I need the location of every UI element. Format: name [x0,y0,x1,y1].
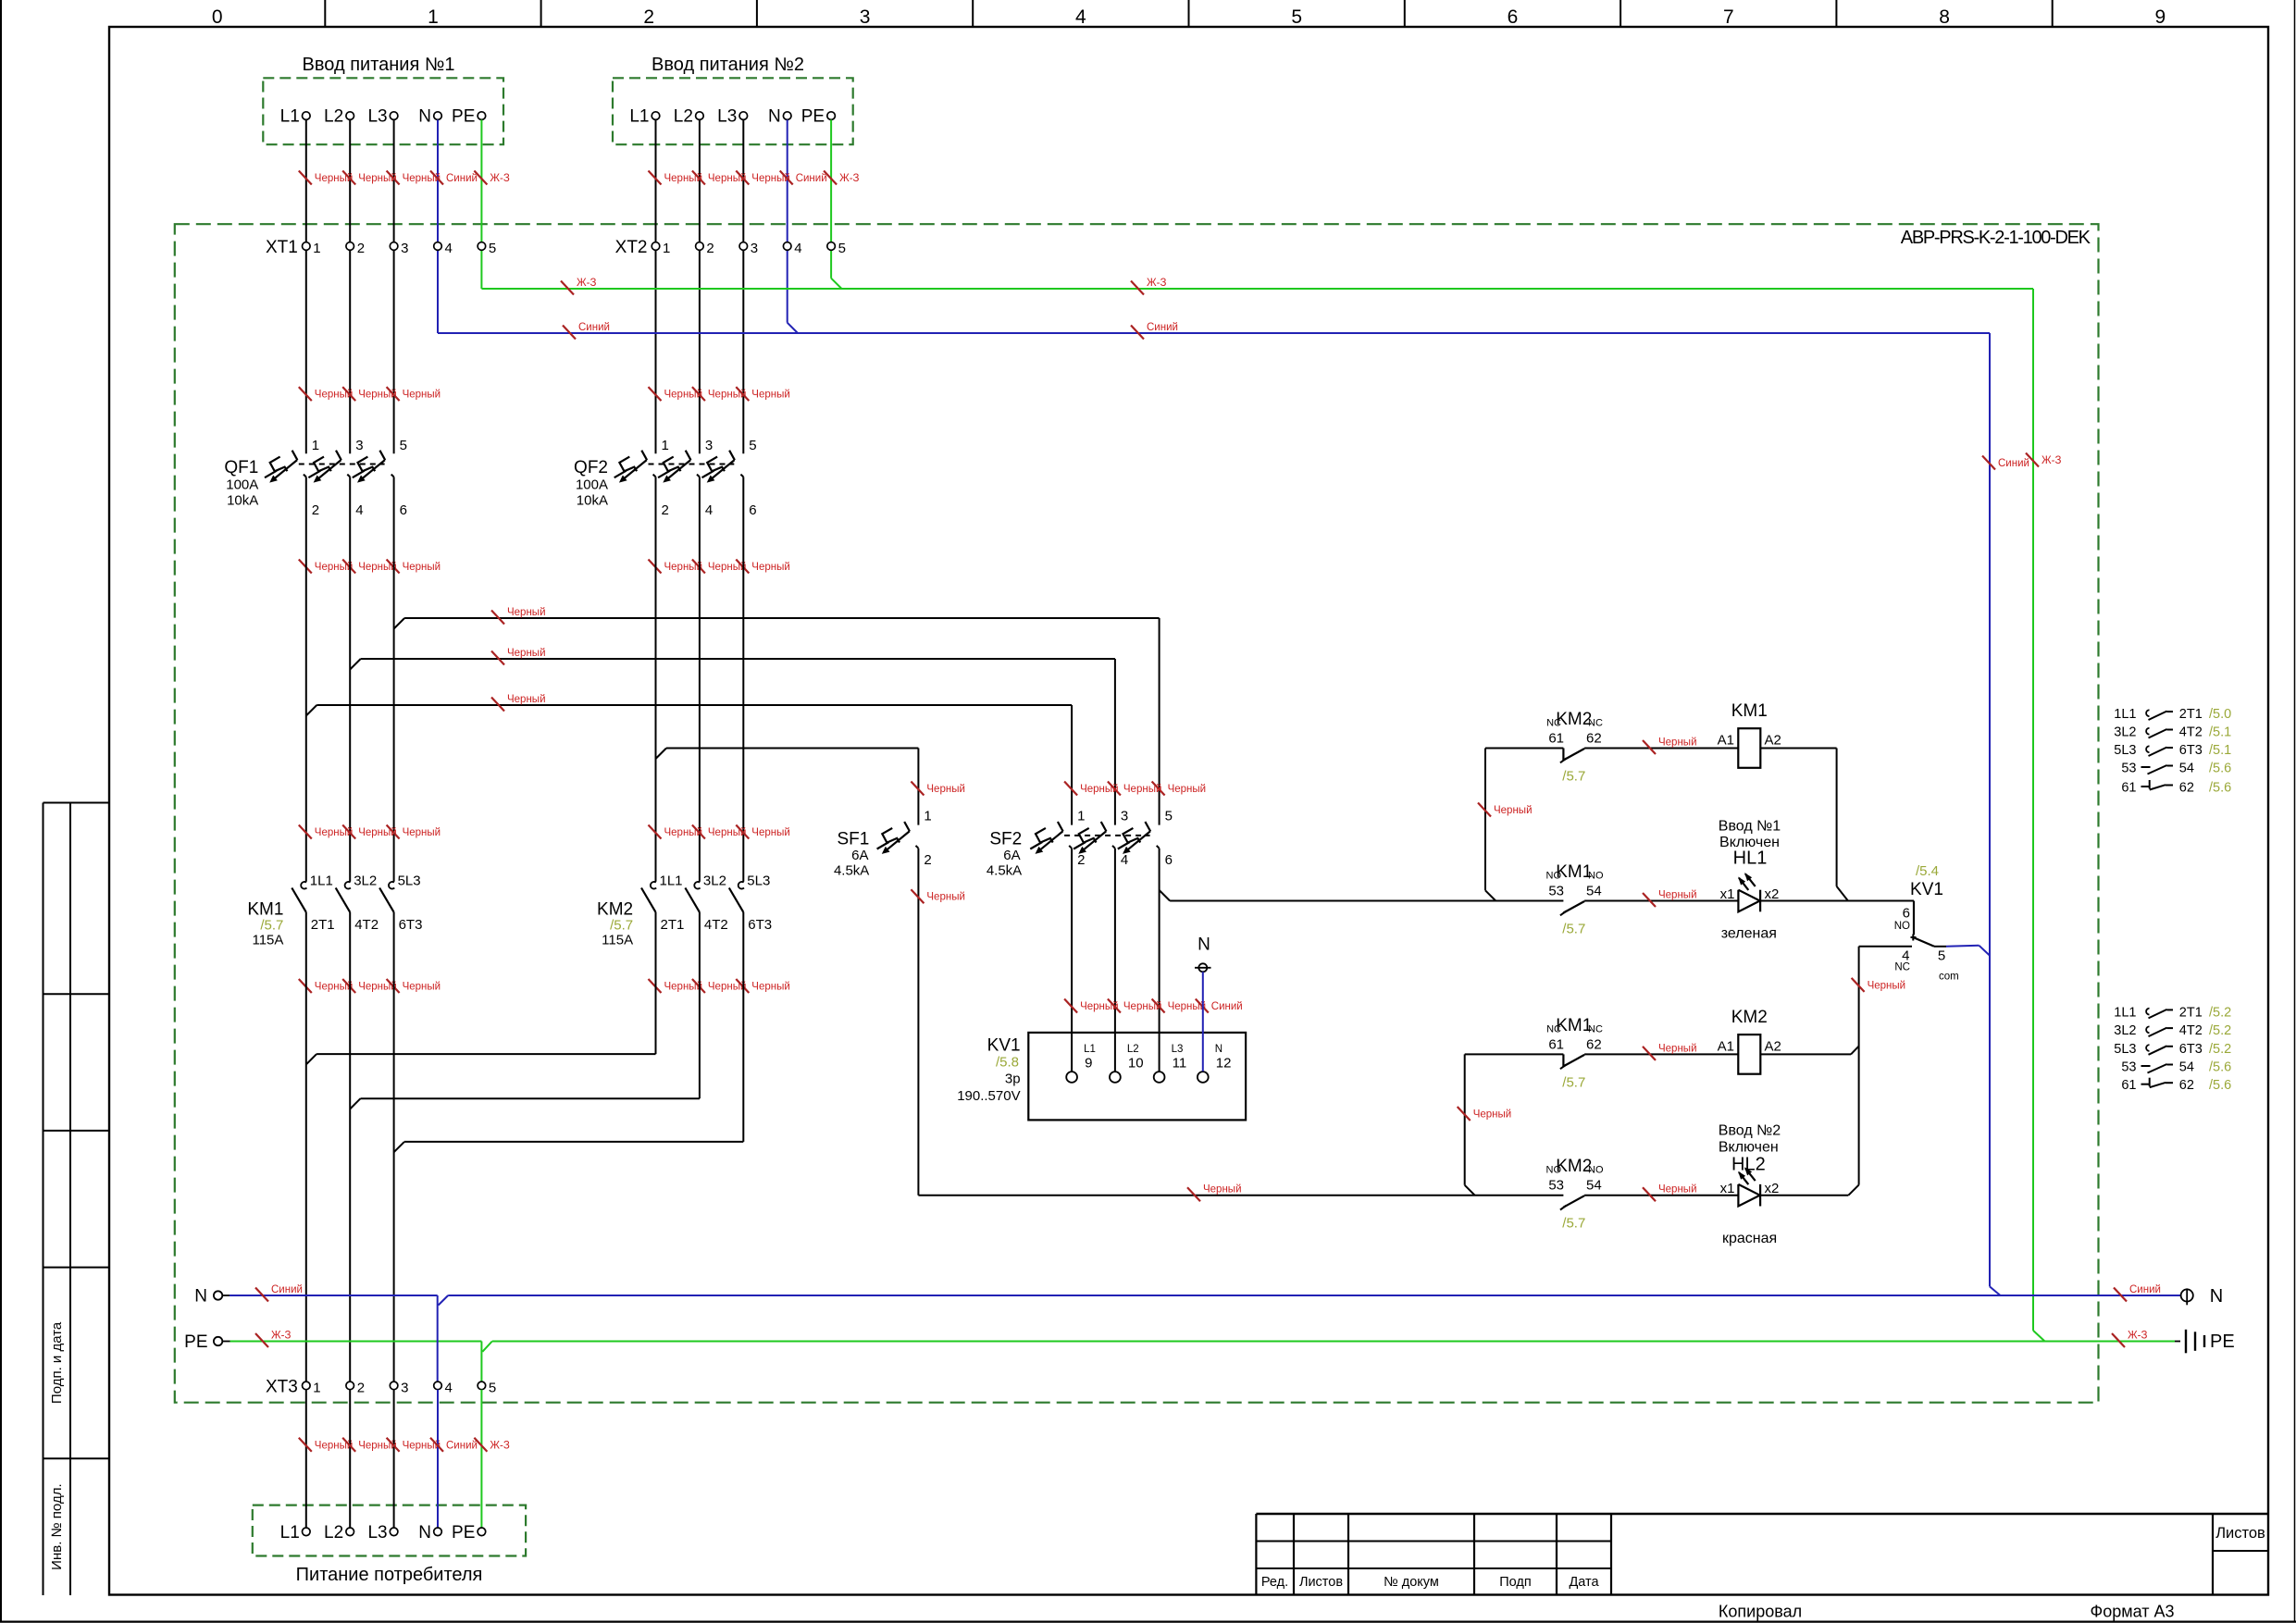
contact KM1 NO 53-54 (rung2) [1546,862,1604,937]
svg-text:KM1: KM1 [1556,1016,1592,1035]
SF2 label [987,830,1022,879]
SF1 label [834,830,869,879]
svg-text:Черный: Черный [1658,737,1697,749]
wire colour labels below KM2 [649,979,790,993]
svg-text:KM1: KM1 [1731,701,1768,721]
left label Инв. № подл. [49,1483,65,1569]
wire rung1 right riser [1837,749,1848,901]
svg-text:/5.2: /5.2 [2209,1005,2231,1020]
svg-text:N: N [768,107,781,127]
svg-text:6: 6 [1903,906,1910,922]
branch chamfer SF2:6 to control rung [1160,890,1171,901]
svg-text:8: 8 [1939,6,1950,28]
svg-text:Черный: Черный [1123,784,1162,795]
wire colour label on bus y=668 [491,607,546,625]
terminal XT3:5 [478,1380,496,1395]
svg-text:11: 11 [1173,1056,1187,1072]
svg-text:1L1: 1L1 [310,873,333,889]
contactor KM1 main contact 5L3-6T3 [379,873,422,934]
svg-text:3L2: 3L2 [2114,1023,2136,1038]
svg-text:XT2: XT2 [615,238,648,257]
wire rung3 left segment [1465,1053,1564,1055]
wire colour labels above KM1 [299,825,441,839]
ruler column ticks [325,0,2052,27]
svg-text:NC: NC [1894,962,1910,973]
contact KM2 NO 53-54 (rung4) [1546,1157,1604,1232]
title block label № докум [1384,1575,1439,1590]
input box Ввод питания №2 [613,78,853,144]
KM1 label [247,900,283,948]
svg-text:5L3: 5L3 [398,873,421,889]
svg-text:NO: NO [1894,921,1910,932]
svg-text:3: 3 [1121,809,1128,824]
svg-text:Черный: Черный [403,390,441,401]
svg-text:Ред.: Ред. [1261,1575,1288,1590]
svg-text:5L3: 5L3 [747,873,770,889]
svg-text:6A: 6A [1003,848,1020,863]
svg-text:1L1: 1L1 [2114,1005,2136,1020]
svg-text:Ввод питания №2: Ввод питания №2 [652,55,804,75]
wire KM1 output column 6T3 down to XT3 [393,912,395,1381]
svg-text:NO: NO [1546,871,1562,882]
svg-text:1: 1 [1077,809,1085,824]
merge wire KM2 2T1 to KM1 column [316,912,655,1054]
voltage relay KV1 box [1028,1033,1246,1121]
terminal strip XT1 label [266,238,298,257]
svg-text:/5.7: /5.7 [1562,1074,1585,1090]
contactor KM2 main contact 3L2-4T2 [685,873,727,934]
title block label Листов (right) [2215,1525,2265,1542]
svg-text:62: 62 [1586,1036,1602,1052]
svg-text:ABP-PRS-K-2-1-100-DEK: ABP-PRS-K-2-1-100-DEK [1901,228,2091,248]
svg-text:Формат А3: Формат А3 [2091,1603,2175,1621]
svg-text:61: 61 [2121,1078,2136,1093]
svg-text:Питание потребителя: Питание потребителя [296,1565,483,1585]
terminal XT2:2 [696,241,714,256]
svg-text:Подп: Подп [1499,1575,1531,1590]
KM2 label [597,900,633,948]
KV1 terminal 12 (N) [1198,1044,1232,1083]
wire colour label rung4 right [1643,1184,1697,1202]
svg-text:Ж-З: Ж-З [271,1331,291,1342]
footer label Формат А3 [2091,1603,2175,1621]
svg-text:2: 2 [706,241,714,256]
svg-text:L1: L1 [1084,1044,1096,1055]
N rail label Синий left [255,1284,303,1302]
svg-text:0: 0 [212,6,223,28]
title block label Подп [1499,1575,1531,1590]
cross-ref KM2 contact 61-62 [2121,1078,2231,1094]
svg-text:/5.4: /5.4 [1916,863,1939,879]
terminal XT1:5 [478,241,496,256]
N rail left segment [230,1295,438,1296]
input 2 terminal L1 [629,107,659,127]
svg-text:62: 62 [1586,731,1602,747]
input 1 terminal PE [452,107,486,127]
svg-text:4: 4 [1075,6,1086,28]
svg-text:54: 54 [2179,1060,2194,1075]
svg-text:1: 1 [428,6,439,28]
svg-text:10: 10 [1128,1056,1144,1072]
svg-text:2T1: 2T1 [311,917,335,933]
wire colour label consumer N [430,1438,478,1452]
contactor coil KM2 [1718,1008,1781,1074]
PE rail label Ж-З left [255,1331,291,1348]
svg-text:Черный: Черный [1658,890,1697,901]
wire colour labels above QF2 [649,387,790,401]
wire colour label input2 L2 [692,171,747,185]
svg-text:/5.6: /5.6 [2209,1060,2231,1075]
KV1 terminal 11 (L3) [1154,1044,1186,1083]
svg-text:/5.2: /5.2 [2209,1023,2231,1038]
svg-text:Синий: Синий [1147,322,1178,333]
svg-text:L3: L3 [717,107,737,127]
wire input1 L3 to QF1 [393,119,395,453]
svg-text:Синий: Синий [446,173,478,184]
svg-text:/5.6: /5.6 [2209,781,2231,796]
terminal N (left) [194,1287,230,1307]
wire bus to SF1 [666,749,918,825]
svg-text:62: 62 [2179,781,2194,796]
merge wire KM2 4T2 to KM1 column [361,912,700,1098]
svg-text:x2: x2 [1765,1181,1780,1196]
svg-text:10kA: 10kA [577,493,608,509]
wire colour label on riser [1478,803,1533,817]
wire QF1 column x=331 down to KM1 [305,477,307,881]
wire input2 PE down to PE bus [831,119,841,289]
svg-text:№ докум: № докум [1384,1575,1439,1590]
wire colour label rung3 [1643,1043,1697,1060]
svg-text:53: 53 [1548,884,1564,899]
consumer terminal PE [452,1523,486,1542]
wire N tap to KV1:12 [1202,972,1204,1072]
terminal N (right) [2181,1286,2224,1307]
svg-text:5L3: 5L3 [2114,743,2136,758]
svg-text:A1: A1 [1718,733,1734,749]
svg-text:6T3: 6T3 [399,917,423,933]
svg-text:5: 5 [1938,948,1945,964]
consumer terminal L3 [367,1523,397,1542]
terminal XT3:4 [434,1380,453,1395]
svg-text:/5.7: /5.7 [610,918,633,934]
wire SF2:2 down to KV1:9 [1071,849,1073,1072]
svg-text:/5.7: /5.7 [260,918,283,934]
wire QF1 column x=378 down to KM1 [349,477,351,881]
svg-text:L3: L3 [1172,1044,1184,1055]
svg-text:Черный: Черный [1868,980,1906,991]
svg-text:5: 5 [1165,809,1173,824]
wire colour label input2 L3 [736,171,790,185]
svg-text:2: 2 [924,852,931,868]
svg-text:L2: L2 [1127,1044,1139,1055]
svg-text:NC: NC [1546,718,1561,729]
svg-text:PE: PE [184,1332,207,1352]
wire colour label rung1 [1643,737,1697,755]
wire colour label consumer L3 [387,1438,441,1452]
svg-text:Синий: Синий [1998,458,2029,469]
wire colour label input1 N [430,171,478,185]
svg-text:NO: NO [1588,1165,1604,1176]
svg-text:L2: L2 [324,107,343,127]
svg-text:1L1: 1L1 [660,873,683,889]
wire KM1 output column 2T1 down to XT3 [305,912,307,1381]
wire colour labels above QF1 [299,387,441,401]
wire bus y=668 to SF2 [404,618,1160,825]
svg-text:Листов: Листов [1299,1575,1343,1590]
merge chamfer at (378,1187) [350,1098,360,1109]
title block label Ред. [1261,1575,1288,1590]
svg-text:12: 12 [1216,1056,1232,1072]
wire colour label consumer L1 [299,1438,354,1452]
relay contact KV1 6-4-5 [1894,863,1959,983]
svg-text:Черный: Черный [1658,1043,1697,1054]
svg-text:N: N [418,107,431,127]
PE rail right segment [482,1342,2175,1352]
svg-text:/5.1: /5.1 [2209,725,2231,740]
svg-text:Черный: Черный [751,562,790,573]
svg-text:Черный: Черный [926,892,965,903]
branch chamfer at (426,668) [394,618,405,629]
terminal XT3:2 [346,1380,365,1395]
svg-text:6T3: 6T3 [748,917,772,933]
svg-text:L2: L2 [674,107,693,127]
cross-ref KM2 contact 5L3-6T3 [2114,1042,2231,1057]
wire KM1 output column 4T2 down to XT3 [349,912,351,1381]
input 1 terminal N [418,107,441,127]
svg-text:Черный: Черный [1494,805,1533,816]
enclosure name label [1901,228,2091,248]
wire rung2 (supply from SF2) [1170,900,1914,902]
wire XT3:5 to consumer PE [480,1390,482,1528]
branch chamfer at (331,762) [306,705,317,716]
cross-ref KM1 contact 1L1-2T1 [2114,707,2231,722]
KV1 label [957,1036,1020,1105]
svg-text:6A: 6A [851,848,868,863]
output box Питание потребителя [253,1505,526,1556]
svg-text:/5.2: /5.2 [2209,1042,2231,1057]
terminal XT1:4 [434,241,453,256]
svg-text:PE: PE [2210,1332,2235,1352]
breaker SF1 pole [877,822,919,854]
svg-text:/5.8: /5.8 [996,1055,1019,1071]
svg-text:3: 3 [751,241,758,256]
svg-text:190..570V: 190..570V [957,1088,1020,1104]
svg-text:NC: NC [1588,718,1603,729]
N riser label Синий [1982,456,2029,470]
N rail right segment [439,1295,2181,1306]
potential symbol N (to KV1:12) [1195,935,1211,973]
SF2 pin numbers [1077,809,1173,868]
cross-ref KM2 contact 53-54 [2121,1060,2231,1075]
terminal XT1:3 [390,241,408,256]
input box Ввод питания №1 [263,78,503,144]
svg-text:NC: NC [1546,1023,1561,1035]
wire colour label rung2 [1643,890,1697,908]
wire XT3:2 to consumer L2 [349,1390,351,1528]
consumer terminal L2 [324,1523,354,1542]
svg-text:Ж-З: Ж-З [2042,455,2061,466]
svg-text:NO: NO [1588,871,1604,882]
svg-text:/5.6: /5.6 [2209,762,2231,776]
title block label Дата [1569,1575,1599,1590]
svg-text:54: 54 [1586,884,1602,899]
wire input2 L2 to QF2 [699,119,701,453]
wire colour label above SF1 [911,782,965,796]
wire rung1 left segment [1485,748,1563,750]
wire colour label consumer PE [474,1438,509,1452]
svg-text:L3: L3 [367,107,387,127]
svg-text:4.5kA: 4.5kA [834,863,869,879]
wire KV1:5 com to N riser [1934,946,1990,956]
svg-text:2: 2 [643,6,654,28]
terminal strip XT2 label [615,238,648,257]
svg-text:5: 5 [489,1380,496,1395]
KV1 terminal 10 (L2) [1110,1044,1144,1083]
contactor KM1 main contact 1L1-2T1 [292,873,334,934]
svg-text:4.5kA: 4.5kA [987,863,1022,879]
QF1 pin numbers [312,438,407,518]
svg-text:красная: красная [1722,1231,1777,1246]
wire XT3:3 to consumer L3 [393,1390,395,1528]
N rail label Синий right [2114,1284,2161,1302]
svg-text:Синий: Синий [578,322,610,333]
merge wire KM2 6T3 to KM1 column [404,912,743,1142]
svg-text:2T1: 2T1 [2179,707,2203,722]
caption Ввод питания №2 [652,55,804,75]
PE top bus label Ж-З 1 [561,278,596,295]
svg-text:Черный: Черный [507,694,546,705]
wire N rail down to XT3:4 [437,1295,439,1381]
svg-text:6T3: 6T3 [2179,1042,2203,1057]
wire colour label rung4 left [1187,1184,1242,1202]
QF2 pin numbers [662,438,757,518]
svg-text:115A: 115A [602,933,633,948]
terminal XT2:3 [739,241,758,256]
PE rail label Ж-З right [2112,1331,2147,1348]
svg-text:Черный: Черный [403,562,441,573]
svg-text:KM2: KM2 [1731,1008,1768,1027]
circuit breaker QF2 poles [614,451,744,483]
svg-text:3: 3 [705,438,713,453]
svg-text:Черный: Черный [507,607,546,618]
wire colour label input1 L1 [299,171,354,185]
ruler column numbers 0-9 [212,6,2166,28]
svg-text:2: 2 [662,502,669,518]
wire colour labels below QF2 [649,560,790,574]
svg-text:61: 61 [2121,781,2136,796]
svg-text:Ввод питания №1: Ввод питания №1 [303,55,455,75]
svg-text:1: 1 [924,809,931,824]
svg-text:Черный: Черный [403,982,441,993]
contact KM2 NC 61-62 (rung1) [1546,710,1603,785]
svg-text:HL2: HL2 [1731,1155,1766,1175]
svg-text:Синий: Синий [446,1440,478,1451]
svg-text:Черный: Черный [507,648,546,659]
svg-text:L3: L3 [367,1523,387,1542]
svg-text:Ж-З: Ж-З [577,278,596,289]
svg-text:L2: L2 [324,1523,343,1542]
svg-text:5: 5 [400,438,407,453]
wire QF2 column L3 down to KM2 [742,477,744,881]
svg-text:4: 4 [355,502,363,518]
svg-text:3: 3 [401,241,408,256]
terminal XT1:2 [346,241,365,256]
wire colour label above SF2 x=1158 [1064,782,1119,796]
svg-text:Дата: Дата [1569,1575,1599,1590]
svg-text:Черный: Черный [1658,1184,1697,1196]
svg-text:x2: x2 [1765,886,1780,902]
wire SF2:4 down to KV1:10 [1114,849,1116,1072]
enclosure dashed border ABP-PRS [175,224,2099,1403]
svg-text:QF1: QF1 [224,458,258,477]
svg-text:L1: L1 [280,1523,300,1542]
svg-text:6T3: 6T3 [2179,743,2203,758]
svg-text:3: 3 [860,6,871,28]
wire input1 N down to N bus [437,119,439,333]
svg-text:Черный: Черный [751,982,790,993]
svg-text:зеленая: зеленая [1721,926,1777,942]
wire colour labels above KV1 [1064,999,1243,1013]
left label Подп. и дата [49,1321,65,1404]
QF2 linkage dashed line [649,464,735,465]
svg-text:KM2: KM2 [597,900,633,920]
PE top bus [481,289,2044,1342]
contactor KM2 main contact 1L1-2T1 [641,873,684,934]
terminal XT2:5 [827,241,846,256]
svg-text:4T2: 4T2 [354,917,379,933]
wire rung1 right segment [1760,748,1836,750]
wire colour label consumer L2 [342,1438,397,1452]
wire colour label on bus y=762 [491,694,546,712]
svg-text:6: 6 [400,502,407,518]
PE top bus label Ж-З 2 [1131,278,1166,295]
svg-text:Черный: Черный [1203,1184,1242,1196]
input 2 terminal PE [801,107,836,127]
svg-text:3L2: 3L2 [703,873,726,889]
svg-text:PE: PE [801,107,825,127]
svg-text:A2: A2 [1765,733,1781,749]
svg-text:53: 53 [2121,762,2136,776]
caption Питание потребителя [296,1565,483,1585]
svg-text:6: 6 [749,502,756,518]
wire PE rail down to XT3:5 [480,1342,482,1382]
svg-text:9: 9 [2154,6,2166,28]
svg-text:1: 1 [312,438,319,453]
wire colour label above SF2 x=1253 [1152,782,1207,796]
contact KM1 NC 61-62 (rung3) [1546,1016,1603,1091]
svg-text:Черный: Черный [751,390,790,401]
input 1 terminal L2 [324,107,354,127]
terminal XT1:1 [303,241,321,256]
svg-text:Черный: Черный [1080,784,1119,795]
svg-text:XT3: XT3 [266,1377,298,1396]
svg-text:x1: x1 [1720,886,1735,902]
wire XT3:4 to consumer N [437,1390,439,1528]
N top bus [438,333,2001,1295]
svg-text:Черный: Черный [926,784,965,795]
svg-text:3: 3 [401,1380,408,1395]
svg-text:SF2: SF2 [989,830,1022,849]
wire input2 L1 to QF2 [655,119,657,453]
PE rail left segment [230,1341,482,1343]
title block label Листов [1299,1575,1343,1590]
svg-text:4: 4 [705,502,713,518]
consumer terminal N [418,1523,441,1542]
svg-text:PE: PE [452,107,475,127]
N top bus label Синий 2 [1131,322,1178,340]
footer label Копировал [1719,1603,1802,1621]
svg-text:KM1: KM1 [1556,862,1592,882]
